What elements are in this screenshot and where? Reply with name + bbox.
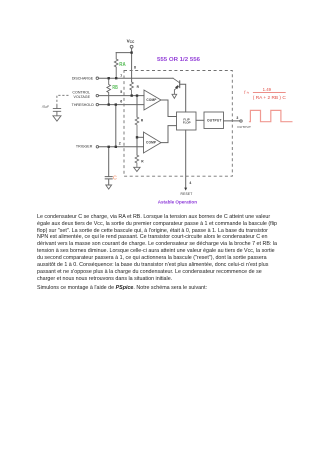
control voltage terminal	[96, 94, 98, 96]
resistor R1 (divider)	[130, 82, 134, 96]
ground (.01uF cap)	[53, 116, 61, 121]
wire .01uF cap to ground	[56, 106, 58, 116]
Vcc terminal	[130, 45, 133, 48]
wire node B to comp2	[137, 136, 144, 138]
svg-text:RB: RB	[112, 85, 118, 91]
output terminal	[240, 120, 242, 122]
svg-text:4: 4	[189, 181, 191, 185]
svg-text:1.49: 1.49	[263, 87, 272, 92]
svg-text:3: 3	[236, 116, 238, 120]
svg-text:THRESHOLD: THRESHOLD	[72, 103, 95, 107]
ground (capacitor C)	[106, 185, 112, 189]
pin labels	[119, 65, 239, 185]
flip flop box	[177, 112, 197, 130]
svg-text:( RA + 2 RB ) C: ( RA + 2 RB ) C	[253, 95, 286, 100]
reset terminal arrow	[184, 188, 187, 191]
svg-text:VCC: VCC	[127, 38, 135, 44]
svg-text:DISCHARGE: DISCHARGE	[72, 76, 94, 80]
capacitor C wire to ground	[108, 179, 110, 184]
capacitor C wire from trigger	[108, 147, 110, 176]
wire junction to RA top	[116, 52, 131, 54]
dashed connector to control voltage	[57, 95, 69, 106]
trigger terminal	[96, 146, 98, 148]
wire node B down to R3	[136, 137, 138, 155]
wire flip flop to output box	[196, 119, 204, 121]
wire Vcc down to junction	[131, 48, 133, 53]
svg-text:2: 2	[119, 141, 121, 145]
threshold terminal	[96, 103, 98, 105]
svg-text:OUTPUT: OUTPUT	[207, 119, 222, 123]
svg-text:f ≈: f ≈	[244, 90, 249, 95]
output box	[204, 112, 224, 129]
svg-text:FLOP: FLOP	[183, 121, 191, 125]
svg-text:7: 7	[120, 74, 122, 78]
svg-text:R: R	[141, 160, 144, 164]
svg-text:R: R	[137, 85, 140, 89]
internal part labels	[137, 85, 222, 164]
wire threshold line to comparator	[99, 104, 144, 106]
wire trigger line to comparator	[99, 146, 144, 148]
svg-text:C: C	[113, 176, 117, 182]
paragraph text	[37, 214, 293, 283]
node B divider/comp2	[136, 136, 138, 138]
node A2 divider jog	[136, 94, 138, 96]
wire divider jog node A	[136, 96, 138, 117]
ground (divider R3)	[134, 167, 140, 171]
transistor Q1 emitter	[174, 86, 179, 94]
node Vcc/RA junction	[130, 51, 132, 53]
svg-text:R: R	[141, 118, 144, 122]
wire output box to terminal 3	[224, 120, 240, 122]
ground (transistor emitter)	[172, 94, 177, 98]
node RB/discharge	[108, 77, 110, 79]
op-amp COMP1	[144, 90, 161, 110]
wire comp1 output to flip flop	[161, 100, 177, 117]
svg-text:6: 6	[120, 100, 122, 104]
svg-text:555 OR 1/2 556: 555 OR 1/2 556	[157, 57, 200, 63]
wire comp2 output to flip flop	[161, 126, 177, 143]
wire threshold-trigger tie	[115, 105, 117, 147]
svg-text:.01µF: .01µF	[42, 104, 50, 108]
transistor Q1 emitter arrowhead	[175, 85, 178, 89]
node RB/threshold	[108, 103, 110, 105]
transistor Q1 base lead to flip flop	[180, 84, 186, 112]
resistor RB	[107, 78, 111, 104]
formula f = 1.44/((RA+2RB)C)	[244, 87, 286, 100]
svg-text:COMP: COMP	[146, 141, 157, 145]
svg-text:VOLTAGE: VOLTAGE	[74, 95, 91, 99]
transistor Q1 collector diagonal	[173, 78, 180, 83]
wire reset from flip flop	[185, 130, 187, 188]
svg-text:RESET: RESET	[181, 192, 193, 196]
node RA/discharge	[115, 77, 117, 79]
node A divider/control	[131, 94, 133, 96]
resistor R3 (divider)	[135, 155, 139, 167]
svg-text:Astable Operation: Astable Operation	[158, 199, 197, 205]
node tie/trigger	[115, 146, 117, 148]
discharge terminal	[96, 77, 98, 79]
resistor R2 (divider)	[135, 117, 139, 137]
junction dots	[108, 51, 188, 190]
555 chip dashed boundary	[124, 71, 232, 177]
svg-text:8: 8	[134, 65, 136, 69]
wire control voltage line to comparator	[99, 95, 144, 97]
node C/trigger	[108, 146, 110, 148]
node tie/threshold	[115, 103, 117, 105]
svg-text:TRIGGER: TRIGGER	[76, 144, 93, 148]
svg-text:OUTPUT: OUTPUT	[237, 125, 251, 129]
svg-text:RA: RA	[119, 62, 125, 68]
label Vcc	[127, 38, 135, 44]
capacitor C plates	[105, 177, 112, 179]
svg-text:5: 5	[120, 90, 122, 94]
wire Vcc line into chip to divider R1	[131, 53, 133, 82]
output square waveform	[249, 110, 293, 121]
terminal name labels	[42, 76, 252, 196]
capacitor .01uF plates	[53, 109, 60, 112]
resistor RA	[114, 53, 118, 79]
svg-text:COMP: COMP	[146, 98, 157, 102]
transistor Q1 base bar	[179, 81, 181, 88]
wire discharge line	[99, 77, 173, 79]
op-amp COMP2	[144, 132, 162, 153]
